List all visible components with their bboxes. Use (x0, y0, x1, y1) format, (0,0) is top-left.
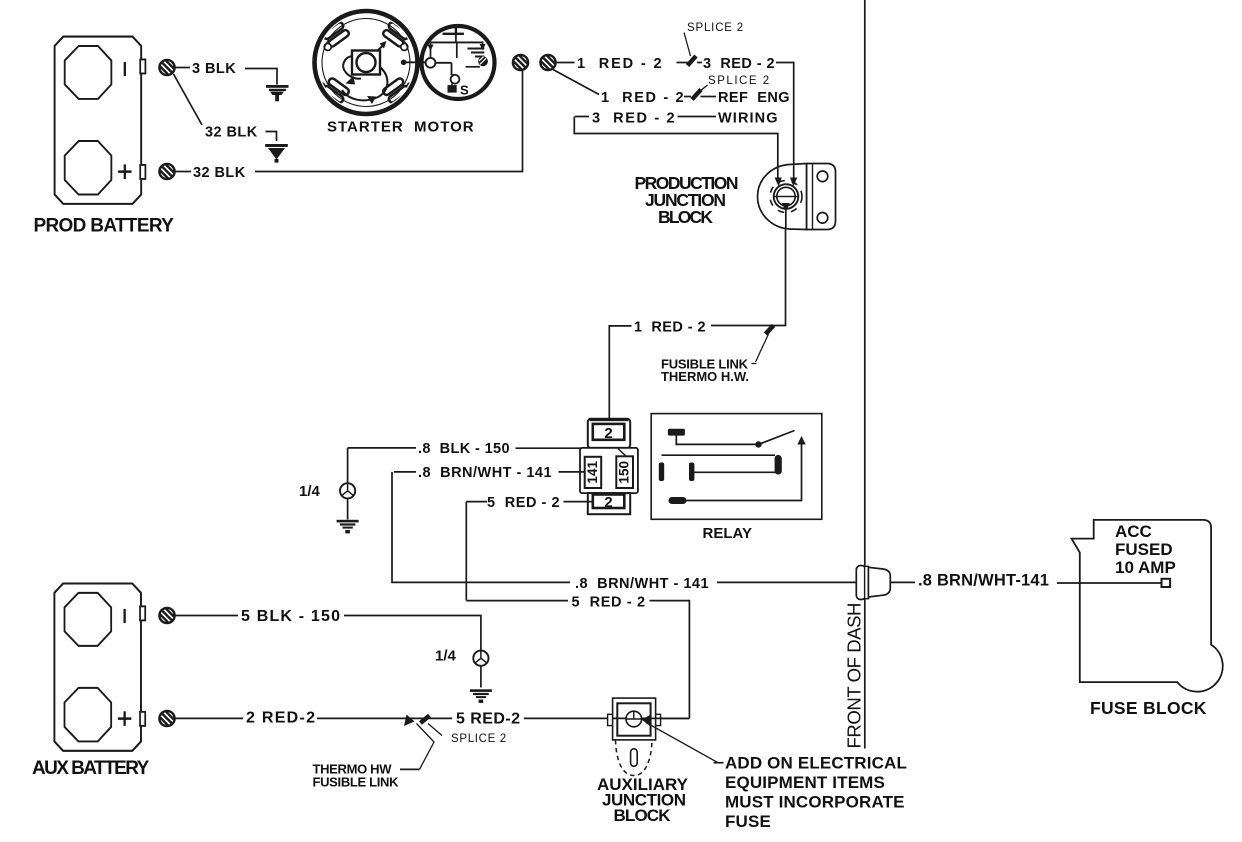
svg-text:10 AMP: 10 AMP (1115, 558, 1176, 577)
svg-text:5 BLK - 150: 5 BLK - 150 (241, 608, 340, 625)
svg-text:ADD ON ELECTRICAL: ADD ON ELECTRICAL (725, 754, 907, 773)
svg-text:5 RED - 2: 5 RED - 2 (487, 495, 560, 511)
svg-text:FUSE: FUSE (725, 812, 771, 831)
svg-text:FUSED: FUSED (1115, 540, 1173, 559)
svg-text:1/4: 1/4 (299, 483, 321, 500)
svg-text:1/4: 1/4 (435, 648, 457, 665)
svg-text:2 RED-2: 2 RED-2 (246, 710, 315, 727)
svg-text:32 BLK: 32 BLK (193, 165, 246, 181)
svg-text:SPLICE 2: SPLICE 2 (687, 22, 744, 34)
svg-text:PROD BATTERY: PROD BATTERY (34, 216, 175, 237)
svg-text:SPLICE 2: SPLICE 2 (708, 75, 770, 87)
svg-text:REF ENG: REF ENG (718, 90, 790, 106)
svg-text:S: S (460, 83, 469, 98)
svg-text:.8 BLK - 150: .8 BLK - 150 (418, 441, 510, 457)
svg-text:141: 141 (585, 461, 600, 484)
svg-text:2: 2 (604, 425, 612, 442)
svg-text:AUX BATTERY: AUX BATTERY (32, 758, 150, 779)
svg-text:ACC: ACC (1115, 522, 1152, 541)
svg-text:5 RED-2: 5 RED-2 (456, 711, 520, 728)
svg-text:BLOCK: BLOCK (614, 806, 672, 825)
svg-text:32 BLK: 32 BLK (205, 125, 258, 141)
svg-text:FUSIBLE LINK: FUSIBLE LINK (313, 775, 400, 790)
svg-text:FUSE BLOCK: FUSE BLOCK (1090, 698, 1207, 718)
svg-text:3 RED - 2: 3 RED - 2 (703, 56, 775, 72)
svg-text:1 RED - 2: 1 RED - 2 (601, 90, 684, 106)
svg-text:WIRING: WIRING (718, 111, 778, 127)
svg-text:MUST INCORPORATE: MUST INCORPORATE (725, 793, 905, 812)
svg-text:.8 BRN/WHT - 141: .8 BRN/WHT - 141 (575, 576, 709, 592)
svg-text:RELAY: RELAY (703, 525, 752, 542)
svg-text:2: 2 (604, 494, 612, 511)
svg-text:EQUIPMENT ITEMS: EQUIPMENT ITEMS (725, 773, 885, 792)
svg-text:THERMO H.W.: THERMO H.W. (661, 369, 749, 384)
svg-text:BLOCK: BLOCK (658, 207, 713, 227)
svg-text:3 RED - 2: 3 RED - 2 (592, 111, 675, 127)
svg-text:SPLICE 2: SPLICE 2 (451, 733, 507, 745)
svg-text:STARTER MOTOR: STARTER MOTOR (327, 119, 475, 136)
svg-text:FRONT OF DASH: FRONT OF DASH (844, 603, 865, 749)
svg-text:.8 BRN/WHT - 141: .8 BRN/WHT - 141 (418, 465, 552, 481)
svg-text:150: 150 (617, 461, 632, 484)
svg-text:1 RED - 2: 1 RED - 2 (634, 320, 706, 336)
svg-text:1 RED - 2: 1 RED - 2 (577, 56, 662, 72)
svg-text:3 BLK: 3 BLK (192, 61, 236, 77)
svg-text:5 RED - 2: 5 RED - 2 (572, 595, 646, 611)
svg-text:.8 BRN/WHT-141: .8 BRN/WHT-141 (918, 572, 1049, 590)
